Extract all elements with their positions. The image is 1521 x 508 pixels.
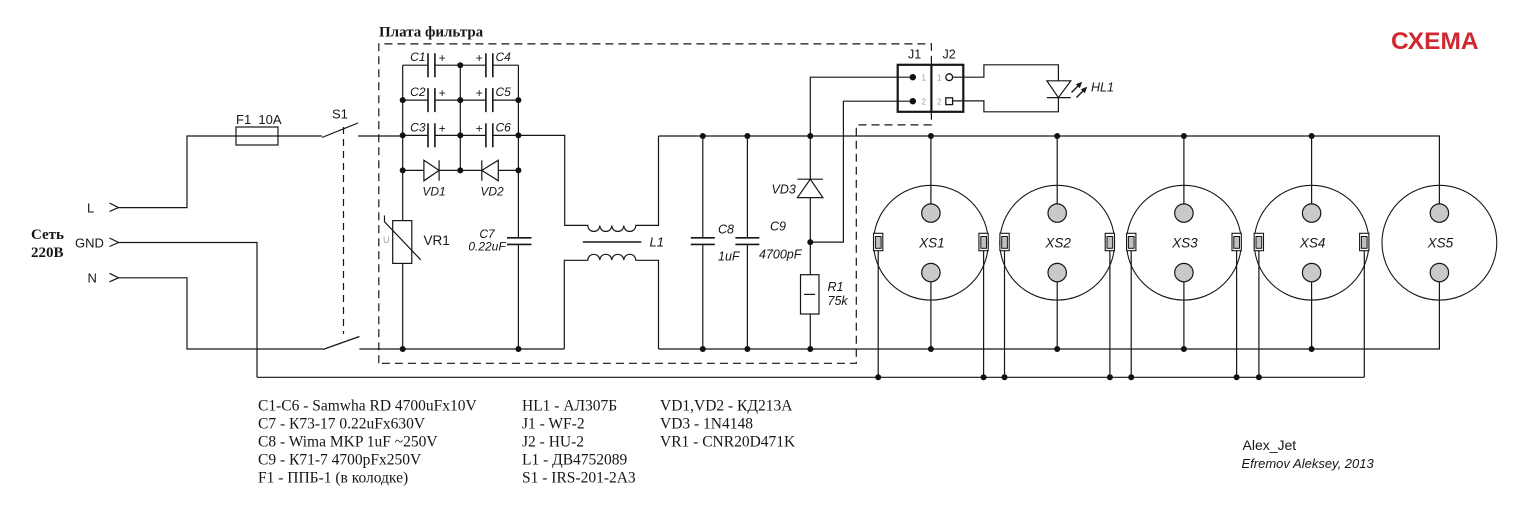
parts list column 2: [522, 398, 636, 487]
svg-text:L1: L1: [650, 235, 664, 250]
capacitor C5 plates: [486, 88, 493, 112]
svg-text:XS4: XS4: [1299, 236, 1326, 251]
socket XS2: [1000, 133, 1115, 377]
svg-text:VD3: VD3: [772, 183, 796, 197]
svg-text:Сеть: Сеть: [31, 227, 64, 243]
varistor VR1 strike: [385, 216, 421, 260]
svg-text:VD1,VD2 - КД213А: VD1,VD2 - КД213А: [660, 398, 793, 415]
svg-text:Alex_Jet: Alex_Jet: [1243, 437, 1297, 453]
node N terminal chevron: [110, 273, 119, 282]
svg-text:F1 10A: F1 10A: [236, 112, 282, 127]
node L terminal chevron: [110, 203, 119, 212]
LED HL1 symbol: [1047, 81, 1071, 98]
wire L input to fuse: [119, 136, 237, 208]
svg-text:+: +: [439, 86, 446, 100]
capacitor C2 plates: [428, 88, 435, 112]
svg-text:C3: C3: [410, 120, 426, 134]
svg-text:+: +: [475, 51, 482, 65]
svg-text:C6: C6: [496, 120, 512, 134]
svg-text:Efremov Aleksey, 2013: Efremov Aleksey, 2013: [1242, 456, 1375, 471]
connector J1/J2 divider: [930, 65, 932, 112]
svg-text:HL1: HL1: [1091, 81, 1114, 95]
svg-text:+: +: [439, 121, 446, 135]
connector J2 pin2 square: [946, 98, 953, 105]
svg-text:J1: J1: [908, 48, 921, 62]
svg-text:R1: R1: [828, 280, 844, 294]
svg-text:C9: C9: [770, 220, 786, 234]
svg-text:2: 2: [922, 98, 927, 107]
socket XS4: [1254, 133, 1369, 377]
svg-text:VD3 - 1N4148: VD3 - 1N4148: [660, 416, 753, 433]
junction dots: [400, 62, 916, 352]
wire diode row: [403, 169, 519, 171]
svg-text:XS3: XS3: [1171, 236, 1198, 251]
svg-text:C8 - Wima MKP 1uF ~250V: C8 - Wima MKP 1uF ~250V: [258, 434, 438, 451]
svg-text:C7 - К73-17 0.22uFx630V: C7 - К73-17 0.22uFx630V: [258, 416, 426, 433]
wire bottom N bus to sockets: [659, 282, 1440, 349]
svg-text:VR1: VR1: [424, 233, 450, 248]
svg-text:J2 - HU-2: J2 - HU-2: [522, 434, 584, 451]
wire cap-bank middle vertical: [459, 65, 461, 170]
parts list column 1: [258, 398, 478, 487]
svg-text:4700pF: 4700pF: [759, 248, 803, 262]
wire row C3-C6: [403, 134, 519, 136]
wire top L bus to sockets: [659, 136, 1440, 204]
switch S1 pole 1 blade: [322, 123, 358, 138]
wire switch pole1 to filter board: [358, 135, 403, 137]
svg-text:U: U: [383, 235, 390, 245]
wire GND input down to ground bus: [119, 243, 258, 378]
svg-text:N: N: [88, 271, 97, 286]
svg-text:+: +: [475, 86, 482, 100]
wire J1 pin1 to L bus: [810, 77, 913, 136]
wire through fuse to switch pole 1: [236, 135, 322, 137]
svg-text:L1 - ДВ4752089: L1 - ДВ4752089: [522, 452, 628, 469]
capacitor C8 plates: [691, 238, 715, 245]
LED HL1 emission arrows: [1072, 82, 1088, 98]
svg-text:C2: C2: [410, 85, 426, 99]
capacitor C3 plates: [428, 123, 435, 147]
switch S1 pole 2 blade: [323, 337, 360, 350]
svg-text:VD1: VD1: [422, 185, 445, 199]
socket XS3: [1127, 133, 1242, 377]
wire N bus: switch pole2 into filter board: [359, 348, 564, 350]
svg-text:S1 - IRS-201-2A3: S1 - IRS-201-2A3: [522, 470, 636, 487]
wire row C2-C5: [403, 99, 519, 101]
svg-text:C1-C6 - Samwha RD 4700uFx10V: C1-C6 - Samwha RD 4700uFx10V: [258, 398, 478, 415]
wire VD3/R1 node to J1 pin2: [810, 101, 913, 242]
switch S1 linkage (dashed): [343, 127, 345, 334]
svg-text:XS1: XS1: [918, 236, 945, 251]
svg-text:СХЕМА: СХЕМА: [1391, 28, 1479, 55]
capacitor C7 plates: [507, 238, 532, 245]
svg-text:+: +: [439, 51, 446, 65]
socket XS5: [1382, 185, 1497, 300]
svg-text:C4: C4: [496, 50, 512, 64]
capacitor C6 plates: [486, 123, 493, 147]
diode VD2: [482, 160, 499, 181]
svg-text:J1 - WF-2: J1 - WF-2: [522, 416, 585, 433]
diode VD3: [797, 136, 823, 242]
svg-text:75k: 75k: [828, 294, 849, 308]
svg-text:C8: C8: [718, 223, 734, 237]
svg-text:1: 1: [937, 74, 942, 83]
ground bus junction dots: [875, 374, 1262, 380]
svg-text:XS5: XS5: [1427, 236, 1454, 251]
svg-text:VR1 - CNR20D471K: VR1 - CNR20D471K: [660, 434, 796, 451]
connector J2 pin1 circle: [946, 74, 953, 81]
inductor L1 bottom winding: [564, 254, 658, 349]
svg-text:C1: C1: [410, 50, 425, 64]
svg-text:0.22uF: 0.22uF: [468, 240, 506, 254]
svg-text:S1: S1: [332, 107, 348, 122]
svg-text:VD2: VD2: [480, 185, 504, 199]
inductor L1 top winding: [518, 135, 658, 231]
wire N input to switch pole 2: [119, 278, 323, 349]
socket XS1: [874, 133, 989, 377]
svg-text:C9 - К71-7 4700pFx250V: C9 - К71-7 4700pFx250V: [258, 452, 422, 469]
svg-text:XS2: XS2: [1044, 236, 1071, 251]
wire ground bus: [257, 376, 1364, 378]
svg-text:1: 1: [922, 74, 927, 83]
svg-text:F1 - ППБ-1 (в колодке): F1 - ППБ-1 (в колодке): [258, 470, 408, 487]
inductor L1 core: [583, 241, 642, 243]
capacitor C1 plates: [428, 53, 435, 77]
svg-text:220В: 220В: [31, 245, 64, 261]
svg-text:+: +: [475, 121, 482, 135]
filter board dashed outline: [379, 44, 932, 363]
wire cap-bank left vertical: [402, 65, 404, 349]
capacitor C9 plates: [735, 238, 759, 245]
resistor R1 body: [801, 275, 820, 314]
node GND terminal chevron: [110, 238, 119, 247]
wire cap-bank right vertical down to C7 and N bus: [517, 65, 519, 349]
varistor VR1 body: [393, 221, 412, 264]
parts list column 3: [660, 398, 796, 451]
wire row C1-C4: [403, 64, 519, 66]
wire R1 leads: [809, 242, 811, 349]
svg-text:1uF: 1uF: [718, 250, 741, 264]
wire J2 to HL1 loop: [953, 65, 1059, 112]
resistor R1 inner mark: [804, 293, 815, 295]
svg-text:C5: C5: [496, 85, 512, 99]
connector J1 J2 body: [898, 65, 964, 112]
svg-text:Плата фильтра: Плата фильтра: [379, 25, 484, 41]
capacitor C4 plates: [486, 53, 493, 77]
svg-text:GND: GND: [75, 236, 104, 251]
svg-text:2: 2: [937, 98, 942, 107]
diode VD1: [424, 160, 439, 181]
capacitor C8 wires: [702, 136, 704, 349]
svg-text:L: L: [87, 201, 94, 216]
svg-text:HL1 - АЛ307Б: HL1 - АЛ307Б: [522, 398, 617, 415]
capacitor C9 wires: [746, 136, 748, 349]
svg-text:J2: J2: [943, 48, 956, 62]
fuse F1 body: [236, 127, 278, 145]
